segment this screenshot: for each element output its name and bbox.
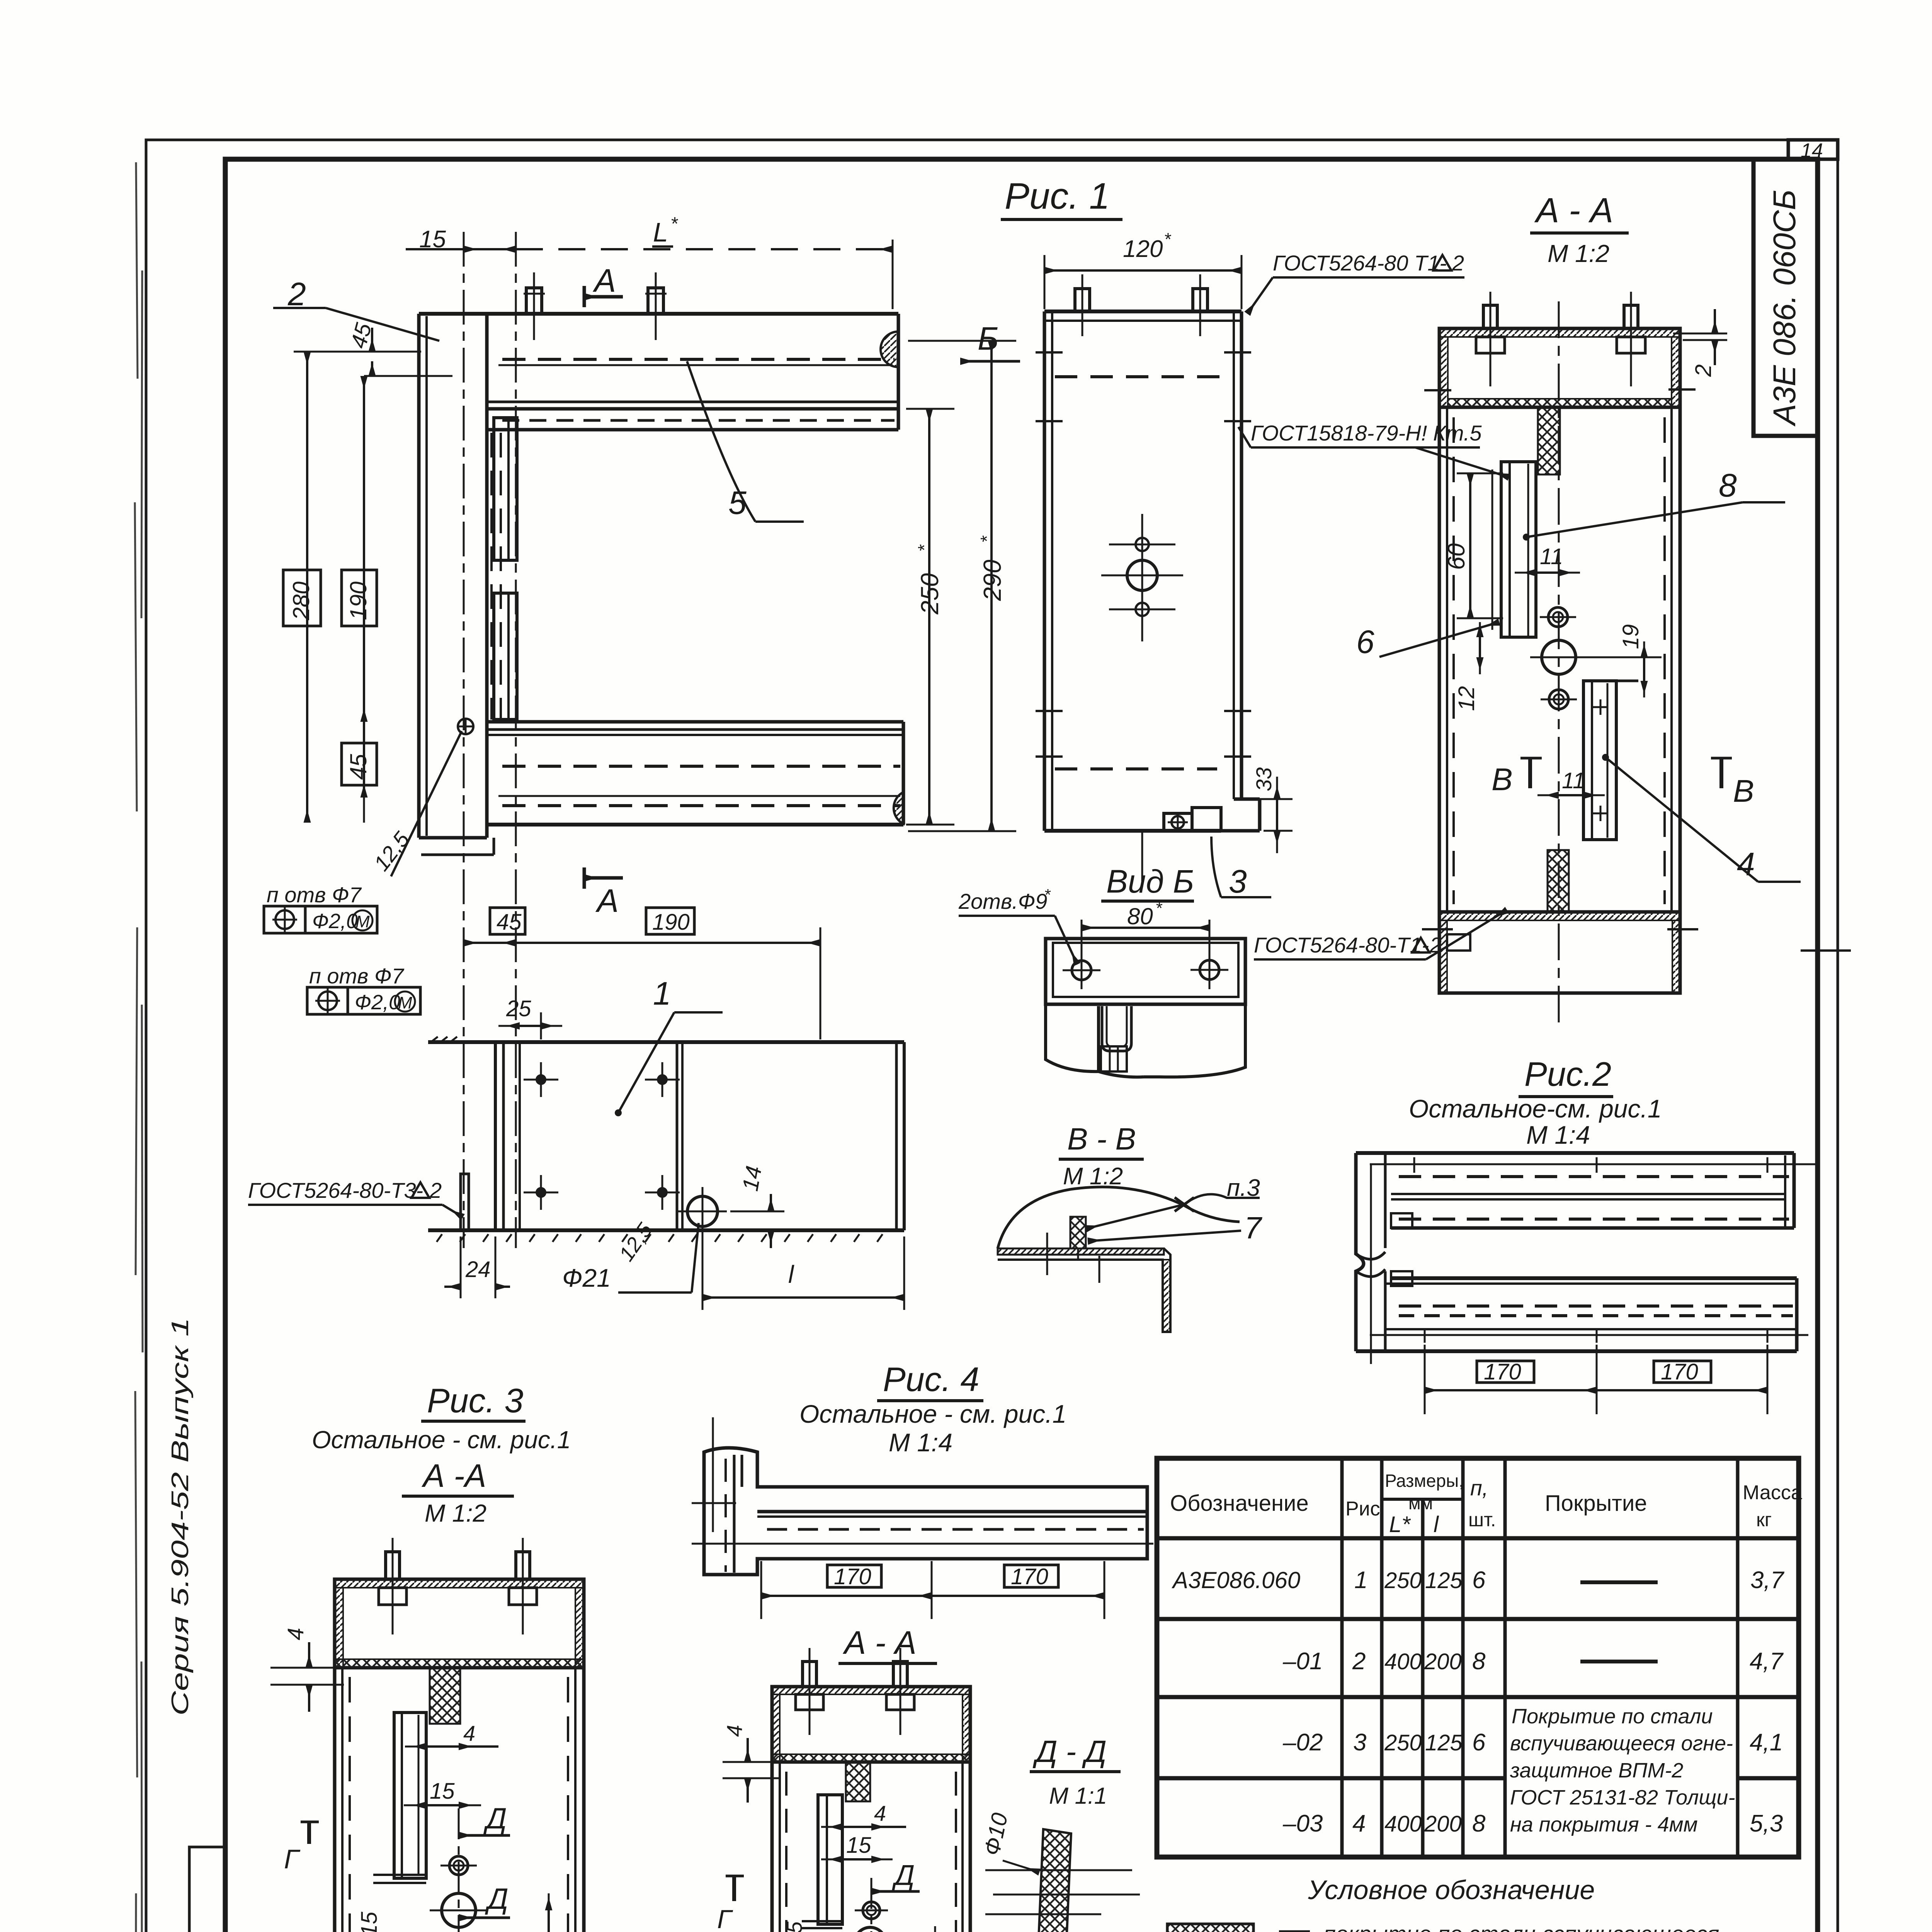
svg-text:6: 6	[1472, 1567, 1486, 1594]
fig2 left vertical dim	[1370, 1164, 1372, 1364]
SECTION A-A dim 11 upper	[1515, 544, 1580, 573]
FIG3 walls	[335, 1668, 584, 1932]
FIG1 leader 2	[273, 276, 439, 341]
svg-text:5,3: 5,3	[1750, 1810, 1783, 1837]
svg-text:4: 4	[283, 1628, 308, 1640]
svg-text:*: *	[1155, 899, 1163, 918]
svg-text:25: 25	[506, 996, 531, 1021]
small hatched stub p.3	[1070, 1217, 1086, 1248]
FIG1 weld point circle	[391, 719, 473, 876]
SECTION A-A leader 6	[1345, 622, 1499, 660]
svg-text:защитное ВПМ-2: защитное ВПМ-2	[1510, 1759, 1683, 1782]
svg-text:п отв Ф7: п отв Ф7	[309, 964, 404, 988]
FIG1 view arrow B	[960, 320, 1020, 361]
svg-text:250: 250	[1384, 1730, 1422, 1755]
inner channel	[1102, 1006, 1131, 1051]
svg-text:ГОСТ 25131-82 Толщи-: ГОСТ 25131-82 Толщи-	[1510, 1786, 1735, 1809]
svg-text:200: 200	[1424, 1649, 1462, 1674]
SECTION A-A second leader from GOST15818	[1415, 447, 1509, 477]
bolts through cap	[1483, 305, 1497, 328]
ITEM1 dim 25	[498, 996, 562, 1039]
svg-text:15: 15	[419, 226, 446, 253]
FIG1 section mark A top	[584, 262, 623, 307]
SECTION A-A coating T insert top	[1538, 407, 1560, 474]
svg-text:11: 11	[1540, 544, 1563, 569]
svg-text:7: 7	[1244, 1211, 1262, 1245]
svg-text:15: 15	[430, 1779, 455, 1804]
svg-text:60: 60	[1443, 543, 1470, 570]
FIG1 leader 5	[687, 361, 804, 522]
table header lines	[1382, 1498, 1463, 1501]
MIDAA coating T insert	[846, 1762, 870, 1801]
svg-text:ГОСТ5264-80-Т1-: ГОСТ5264-80-Т1-	[1254, 933, 1429, 957]
svg-text:6: 6	[1356, 624, 1374, 660]
svg-text:170: 170	[1484, 1359, 1521, 1384]
svg-text:280: 280	[288, 582, 314, 621]
VIEW B drawing	[1046, 920, 1245, 1077]
svg-text:А - А: А - А	[842, 1624, 917, 1661]
svg-text:3,7: 3,7	[1750, 1567, 1785, 1594]
svg-text:В: В	[1492, 762, 1513, 797]
dim 170 boxes	[1477, 1361, 1534, 1383]
SECTION A-A dim 19	[1584, 624, 1662, 697]
svg-text:170: 170	[1661, 1359, 1698, 1384]
svg-text:120: 120	[1123, 236, 1163, 262]
svg-text:6: 6	[1472, 1729, 1486, 1756]
svg-text:Д: Д	[892, 1859, 915, 1891]
svg-text:*: *	[914, 544, 934, 552]
FIG3 dim 15	[404, 1779, 481, 1805]
svg-text:170: 170	[1011, 1564, 1048, 1589]
SECTION V-V drawing	[998, 1175, 1262, 1332]
svg-text:Ф21: Ф21	[562, 1264, 611, 1292]
MIDVIEW dim 120*	[1044, 229, 1242, 309]
FIG3 dim 15 rotated left	[355, 1910, 458, 1932]
small latch bottom rail	[1391, 1271, 1412, 1286]
svg-text:Д: Д	[485, 1883, 509, 1915]
svg-text:–02: –02	[1282, 1729, 1323, 1756]
SECTION D-D right bar	[979, 1811, 1140, 1932]
svg-text:Остальное-см. рис.1: Остальное-см. рис.1	[1409, 1094, 1662, 1123]
FIG3 dim 4 small	[405, 1721, 498, 1747]
svg-text:Г: Г	[717, 1905, 733, 1932]
svg-text:Рис. 4: Рис. 4	[883, 1360, 979, 1398]
svg-text:2отв.Ф9: 2отв.Ф9	[958, 889, 1047, 913]
legend dash	[1279, 1930, 1310, 1932]
base plate hatched	[998, 1248, 1164, 1255]
svg-text:М 1:4: М 1:4	[889, 1428, 952, 1457]
page number box 14	[1788, 139, 1838, 162]
FIG3 holes	[430, 1856, 488, 1932]
SECTION A-A center holes	[1530, 607, 1587, 709]
SECTION A-A section marks V-V	[1492, 758, 1754, 809]
svg-text:Д: Д	[483, 1802, 507, 1835]
MIDAA center axis	[871, 1878, 872, 1932]
svg-text:24: 24	[465, 1257, 491, 1282]
svg-text:ГОСТ5264-80-Т3-: ГОСТ5264-80-Т3-	[248, 1178, 423, 1202]
svg-text:8: 8	[1472, 1810, 1486, 1837]
svg-text:2: 2	[1691, 364, 1716, 377]
SECTION A-A leader 8	[1523, 467, 1785, 541]
svg-text:4,7: 4,7	[1750, 1648, 1784, 1675]
svg-text:на покрытия - 4мм: на покрытия - 4мм	[1510, 1813, 1698, 1836]
svg-text:Остальное - см. рис.1: Остальное - см. рис.1	[799, 1400, 1066, 1428]
svg-text:290: 290	[978, 560, 1006, 601]
SECTION A-A bottom weld note	[1254, 910, 1507, 959]
svg-text:15: 15	[357, 1912, 382, 1932]
svg-text:Рис. 1: Рис. 1	[1005, 175, 1110, 217]
centerline horizontal top	[1370, 1163, 1816, 1165]
svg-text:125: 125	[1425, 1568, 1463, 1593]
svg-text:ГОСТ5264-80 Т1-: ГОСТ5264-80 Т1-	[1273, 251, 1447, 275]
svg-text:Рис. 3: Рис. 3	[427, 1381, 524, 1420]
svg-text:4: 4	[874, 1801, 886, 1825]
FIG3 title	[312, 1381, 571, 1527]
svg-text:45: 45	[345, 754, 371, 780]
svg-text:170: 170	[834, 1564, 871, 1589]
ITEM1 dim l bottom	[702, 1229, 904, 1310]
svg-text:190: 190	[345, 582, 371, 620]
svg-text:Серия 5.904-52 Выпуск 1: Серия 5.904-52 Выпуск 1	[167, 1318, 194, 1716]
svg-text:вспучивающееся огне-: вспучивающееся огне-	[1510, 1732, 1733, 1755]
ITEM1 hole F21	[678, 1187, 727, 1236]
svg-text:33: 33	[1252, 767, 1276, 791]
svg-text:L*: L*	[1389, 1512, 1411, 1537]
MIDVIEW note GOST15818	[1238, 421, 1522, 603]
svg-text:А - А: А - А	[1534, 191, 1613, 230]
svg-text:1: 1	[1354, 1567, 1367, 1594]
MIDAA left plate	[802, 1795, 842, 1928]
svg-text:А3Е 086. 060СБ: А3Е 086. 060СБ	[1767, 189, 1802, 427]
FIG3 coating T insert	[430, 1668, 460, 1724]
svg-text:Остальное - см. рис.1: Остальное - см. рис.1	[312, 1426, 571, 1454]
svg-text:М 1:2: М 1:2	[1063, 1163, 1123, 1190]
MIDAA mark G left	[717, 1876, 744, 1932]
dim 170 boxes	[827, 1565, 881, 1587]
svg-text:Покрытие: Покрытие	[1545, 1491, 1647, 1516]
hatched end cap bottom rail	[894, 792, 903, 824]
MIDVIEW center holes	[1101, 514, 1183, 887]
svg-text:80: 80	[1127, 903, 1153, 929]
FIG2 title	[1409, 1055, 1662, 1149]
curved sheet top	[998, 1187, 1240, 1248]
svg-text:8: 8	[1472, 1648, 1486, 1675]
svg-text:190: 190	[652, 910, 690, 935]
MIDAA holes	[823, 1902, 951, 1932]
SECTION A-A leader 4	[1602, 754, 1801, 882]
svg-text:Покрытие по стали: Покрытие по стали	[1512, 1705, 1713, 1728]
dim lines	[761, 1595, 932, 1597]
svg-text:Размеры,: Размеры,	[1385, 1471, 1464, 1491]
FIG3 dim 4 left	[270, 1628, 344, 1712]
MIDAA dim 4 small	[821, 1801, 906, 1827]
MIDVIEW leader 3	[1211, 837, 1271, 900]
row lines	[1157, 1617, 1799, 1621]
svg-text:4: 4	[1352, 1810, 1366, 1837]
VIEW B label 2otv F9	[958, 886, 1077, 964]
SECTION A-A right plate part 4	[1583, 681, 1638, 840]
svg-text:кг: кг	[1756, 1509, 1772, 1531]
lower body	[1046, 1004, 1099, 1071]
ITEM1 dim 24	[444, 1236, 510, 1298]
small latch left top rail	[1391, 1213, 1412, 1228]
svg-text:45: 45	[497, 910, 522, 935]
svg-text:3: 3	[1353, 1729, 1366, 1756]
VIEW B title	[1101, 863, 1194, 929]
svg-text:Ф2,0: Ф2,0	[355, 991, 400, 1014]
FIG1 top rail part 5	[419, 314, 898, 430]
svg-text:А -А: А -А	[421, 1458, 486, 1494]
centerline ticks	[1046, 1233, 1048, 1275]
versions table	[1157, 1458, 1802, 1857]
svg-text:мм: мм	[1408, 1493, 1433, 1513]
SECTION A-A top right title	[1530, 191, 1629, 267]
SECTION V-V title	[1059, 1122, 1144, 1190]
fold mark right border	[1801, 949, 1851, 952]
svg-text:покрытие по стали вспучиваю: покрытие по стали вспучивающееся	[1323, 1922, 1719, 1932]
svg-text:3: 3	[1229, 863, 1247, 900]
horizontal bar inner lines	[757, 1510, 1147, 1514]
svg-text:Ф2,0: Ф2,0	[312, 910, 358, 933]
MIDAA mark D lower	[872, 1927, 925, 1932]
FIG1 dim 250*	[906, 409, 954, 825]
hidden dashed interior	[1055, 375, 1233, 378]
FIG2 drawing	[1356, 1153, 1816, 1414]
MIDAA title	[838, 1624, 937, 1663]
svg-text:В: В	[1733, 774, 1754, 809]
FIG1 centerline axes	[463, 232, 465, 1248]
svg-text:2: 2	[429, 1178, 442, 1202]
svg-text:2: 2	[1352, 1648, 1366, 1675]
legend hatch swatch	[1167, 1924, 1253, 1932]
svg-text:2: 2	[1452, 251, 1464, 275]
ITEM1 plan view outline	[428, 1037, 904, 1242]
svg-text:15: 15	[846, 1833, 871, 1858]
svg-text:Ф10: Ф10	[979, 1811, 1013, 1858]
svg-text:400: 400	[1384, 1649, 1422, 1674]
left end plate	[1356, 1153, 1364, 1351]
svg-text:Г: Г	[284, 1844, 301, 1874]
table verticals	[1340, 1458, 1344, 1857]
SECTION A-A coating T insert bottom	[1548, 850, 1569, 912]
MIDVIEW bolts top	[1075, 274, 1207, 336]
FIG1 dim 280	[283, 352, 321, 823]
FIG4 title	[799, 1360, 1066, 1457]
SECTION A-A left plate part 8	[1492, 462, 1536, 637]
FIG1 left view: part 2 side plate	[419, 314, 494, 855]
svg-text:400: 400	[1384, 1811, 1422, 1837]
FIG3 left plate	[373, 1713, 426, 1883]
svg-text:Условное обозначение: Условное обозначение	[1308, 1875, 1595, 1905]
svg-text:2: 2	[287, 276, 306, 312]
FIG3 mark D upper	[459, 1802, 510, 1835]
left flange tab	[461, 1174, 469, 1230]
FIG1 dim 45 vertical	[342, 743, 377, 785]
ITEM1 callout hole F7 lower	[307, 964, 420, 1014]
svg-text:В - В: В - В	[1067, 1122, 1136, 1156]
MIDVIEW weld note GOST5264-80 T1 top	[1247, 251, 1464, 314]
main frame	[225, 159, 1818, 1932]
svg-text:Д: Д	[901, 1927, 923, 1932]
FIG1-TITLE	[1001, 175, 1122, 219]
svg-text:l: l	[1434, 1512, 1439, 1537]
paper edge noise strip	[135, 162, 143, 1932]
svg-text:–01: –01	[1282, 1648, 1323, 1675]
svg-text:Обозначение: Обозначение	[1170, 1491, 1309, 1516]
svg-text:L: L	[653, 217, 668, 247]
FIG1 dim 290*	[908, 341, 1016, 831]
FIG1 dim 15 left small	[294, 320, 452, 376]
svg-text:М 1:1: М 1:1	[1049, 1783, 1107, 1809]
top rail	[1356, 1151, 1794, 1155]
svg-text:Рис.2: Рис.2	[1524, 1055, 1611, 1093]
svg-text:1: 1	[653, 975, 671, 1012]
FIG1 hidden edge dashed verticals	[490, 433, 493, 719]
small tab below	[1101, 1046, 1127, 1071]
SECTION A-A center axis	[1558, 301, 1560, 1024]
svg-text:250: 250	[1384, 1568, 1422, 1593]
svg-text:–03: –03	[1282, 1810, 1323, 1837]
weld tick marks below bottom edge	[437, 1234, 883, 1242]
svg-text:Рис: Рис	[1345, 1498, 1380, 1520]
centerline cross at plate	[712, 1417, 714, 1532]
svg-text:М 1:2: М 1:2	[425, 1499, 486, 1527]
fig4 bottom centerline	[692, 1543, 1153, 1545]
svg-text:12: 12	[1454, 686, 1479, 711]
svg-text:Вид Б: Вид Б	[1106, 863, 1194, 900]
SECTION A-A bottom cap	[1422, 912, 1698, 993]
svg-text:шт.: шт.	[1468, 1509, 1496, 1531]
svg-text:А: А	[592, 262, 616, 299]
FIG3 section top cap	[335, 1538, 584, 1668]
MIDAA top cap	[772, 1648, 970, 1762]
MIDAA dim 15	[821, 1833, 893, 1859]
hatched end cap top rail	[881, 332, 898, 367]
svg-text:12,5: 12,5	[369, 827, 414, 875]
centerline horizontal bottom	[1370, 1334, 1808, 1336]
ITEM1 weld note GOST5264-80-T3	[248, 1178, 463, 1217]
svg-text:*: *	[977, 535, 997, 543]
ITEM1 bolt holes	[524, 1062, 680, 1210]
svg-text:п,: п,	[1470, 1476, 1488, 1500]
left margin fold box	[189, 1847, 225, 1932]
MIDAA walls	[772, 1762, 970, 1932]
FIG3 mark G left	[284, 1822, 319, 1874]
svg-text:Б: Б	[978, 320, 999, 357]
svg-text:11: 11	[1562, 768, 1585, 793]
svg-text:М: М	[398, 993, 412, 1012]
SECTION A-A dim 60	[1443, 473, 1503, 618]
MIDAA dim 19	[928, 1926, 955, 1932]
svg-text:М 1:4: М 1:4	[1526, 1121, 1590, 1149]
svg-text:А: А	[595, 883, 619, 919]
svg-text:4: 4	[722, 1725, 747, 1737]
svg-text:М 1:2: М 1:2	[1548, 240, 1609, 267]
svg-text:15: 15	[782, 1921, 806, 1932]
svg-text:М: М	[355, 912, 370, 931]
FIG3 mark D lower	[459, 1883, 510, 1918]
bolts	[386, 1552, 400, 1579]
rotated document number box top-right	[1753, 159, 1818, 436]
svg-text:12,5: 12,5	[615, 1219, 657, 1265]
weld ticks on left top edge	[431, 1037, 457, 1042]
SECTION A-A top cap part 2	[1439, 292, 1680, 407]
svg-text:l: l	[788, 1260, 794, 1288]
svg-text:*: *	[1164, 229, 1172, 249]
bolts	[803, 1662, 816, 1687]
plate body	[1046, 939, 1245, 1004]
svg-text:Д - Д: Д - Д	[1032, 1734, 1107, 1769]
MIDVIEW dim 33	[1246, 767, 1293, 853]
SECTION A-A walls	[1424, 389, 1696, 912]
svg-text:200: 200	[1424, 1811, 1462, 1837]
MIDAA mark D upper	[871, 1859, 920, 1891]
svg-text:п отв Ф7: п отв Ф7	[267, 883, 362, 907]
bottom rail	[1391, 1276, 1797, 1280]
SECTION D-D right title	[1030, 1734, 1121, 1809]
svg-text:4,1: 4,1	[1750, 1729, 1783, 1756]
FIG4 drawing	[692, 1417, 1153, 1619]
ITEM1 callout hole F7 upper	[264, 883, 377, 933]
svg-text:14: 14	[738, 1164, 767, 1193]
dim line 170+170	[1425, 1389, 1597, 1391]
svg-text:4: 4	[463, 1721, 475, 1745]
FIG1 bolts on top	[524, 272, 667, 340]
FIG1 top dim line 15 and L*	[406, 214, 893, 309]
svg-text:*: *	[1044, 886, 1051, 904]
SECTION A-A dim 11 lower	[1537, 768, 1605, 795]
ITEM1 dim 14 rotated	[730, 1164, 784, 1248]
vertical plate	[704, 1448, 1147, 1575]
FIG3 center axis	[458, 1808, 460, 1932]
svg-text:Масса: Масса	[1743, 1481, 1802, 1504]
MIDVIEW body outline	[1036, 311, 1251, 831]
FIG1 dim 190	[342, 376, 377, 823]
svg-text:8: 8	[1719, 467, 1737, 503]
SECTION A-A dim 12	[1454, 622, 1542, 711]
ITEM1 leader 1	[615, 975, 723, 1116]
svg-text:250: 250	[916, 573, 944, 615]
svg-text:19: 19	[1618, 624, 1643, 649]
svg-text:А3Е086.060: А3Е086.060	[1172, 1567, 1300, 1593]
svg-text:125: 125	[1425, 1730, 1463, 1755]
MIDAA dim 4 left	[722, 1725, 781, 1803]
FIG1 shelf plate edges part 5	[494, 418, 517, 560]
SECTION A-A dim 2 top right	[1673, 309, 1727, 377]
FIG3 dim 19	[479, 1893, 571, 1932]
svg-text:*: *	[670, 214, 678, 234]
MIDVIEW corner bracket part 3	[1164, 799, 1260, 831]
holes	[1072, 961, 1091, 980]
wall tick lines	[1036, 351, 1063, 354]
FIG1 bottom rail	[487, 722, 903, 825]
ITEM1 dim boxes 45 190	[464, 908, 820, 1039]
ITEM1 label F21	[562, 1223, 699, 1293]
FIG1 section mark A bottom	[584, 867, 623, 919]
